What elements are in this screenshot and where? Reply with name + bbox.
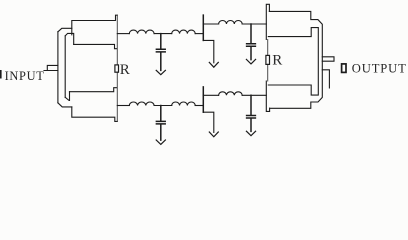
- capacitor C2: [247, 24, 256, 60]
- wire Q1 drain: [203, 23, 218, 25]
- wire Q1 source: [203, 40, 214, 62]
- wire Q2 drain: [203, 94, 218, 96]
- transistor Q1: [202, 15, 204, 40]
- wire between L1 and L2: [154, 33, 172, 35]
- wire input lead to stub: [44, 65, 58, 70]
- capacitor C1: [156, 34, 165, 71]
- wire lower outer feed: [58, 103, 72, 107]
- edge mark: [0, 70, 2, 79]
- wire H2 to R2: [267, 40, 269, 82]
- coupler H1 lower bar bottom edge with tick: [72, 107, 118, 122]
- ground C3: [156, 140, 165, 144]
- svg-text:R: R: [120, 62, 130, 78]
- svg-text:OUTPUT: OUTPUT: [352, 62, 406, 76]
- inductor L3: [219, 21, 243, 24]
- resistor R1: [115, 65, 119, 72]
- ground Q2 source: [209, 132, 218, 137]
- capacitor C4: [247, 95, 256, 131]
- svg-text:R: R: [272, 53, 282, 69]
- port square: [342, 64, 346, 73]
- wire L2 to Q1 gate: [195, 33, 203, 35]
- inductor L4: [129, 102, 154, 105]
- wire L6 to coupler H2: [242, 94, 266, 96]
- wire output lower lead: [322, 70, 329, 88]
- resistor R2: [266, 55, 270, 64]
- ground Q1 source: [209, 62, 218, 67]
- transistor Q2: [202, 87, 204, 112]
- inductor L2: [172, 30, 196, 33]
- coupler H1 upper bar top edge with notch: [72, 15, 118, 35]
- coupler H2 upper bar top edge and outer contour: [269, 11, 322, 108]
- wire lower inner feed: [65, 92, 69, 101]
- inductor L6: [219, 92, 243, 96]
- capacitor C3: [156, 106, 165, 141]
- inductor L5: [172, 102, 196, 105]
- ground C4: [246, 131, 255, 136]
- coupler H2 left spine upper with notch: [266, 4, 269, 39]
- coupler H1 lower bar top edge with step: [70, 88, 117, 92]
- coupler H2 left spine lower with tick: [266, 81, 269, 111]
- wire L5 to Q2 gate: [195, 105, 203, 107]
- wire H1 vertical: [116, 15, 118, 121]
- wire top branch from coupler: [117, 33, 129, 35]
- wire between L4 and L5: [154, 105, 172, 107]
- svg-text:INPUT: INPUT: [5, 69, 45, 83]
- wire L3 to coupler H2: [242, 23, 266, 25]
- wire input feed verticals: [58, 32, 65, 103]
- wire Q2 source: [203, 112, 214, 132]
- wire bottom branch from coupler: [117, 105, 129, 107]
- inductor L1: [129, 30, 154, 33]
- ground C1: [156, 70, 165, 74]
- wire upper outer feed: [58, 28, 72, 32]
- wire output stub: [322, 57, 334, 61]
- coupler H2 upper bar bottom edge and inner contour: [268, 28, 318, 96]
- ground C2: [246, 59, 255, 64]
- coupler H1 upper bar bottom edge with step: [74, 44, 117, 48]
- wire upper inner feed: [65, 33, 74, 44]
